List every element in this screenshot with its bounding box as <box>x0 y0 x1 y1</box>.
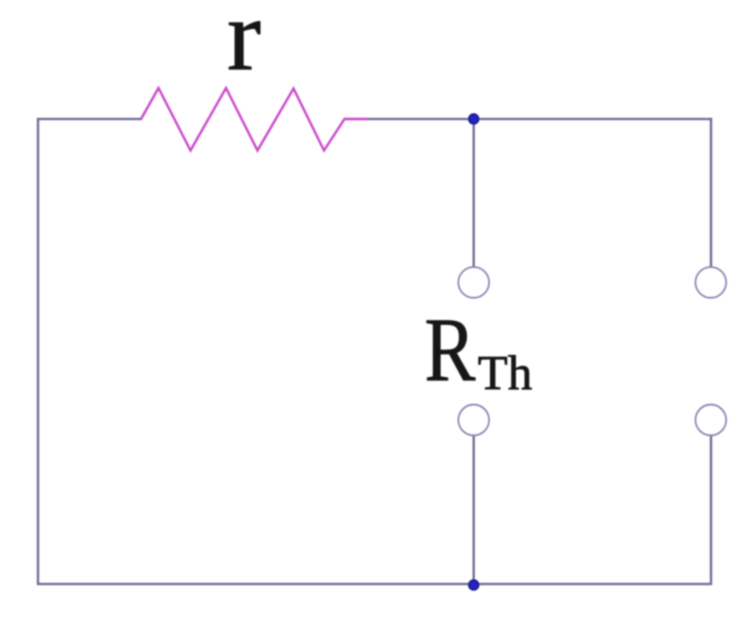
svg-text:Th: Th <box>478 345 532 400</box>
svg-text:r: r <box>227 0 261 93</box>
svg-text:R: R <box>425 300 476 401</box>
